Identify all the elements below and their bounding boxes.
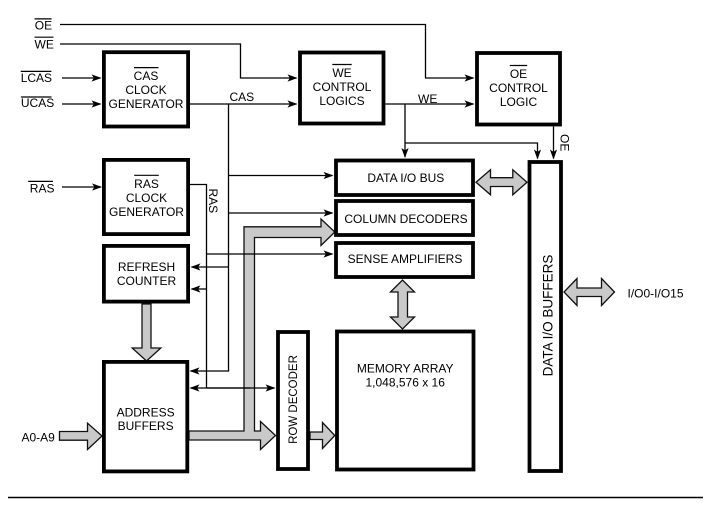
block data io bus <box>336 161 473 196</box>
wire CAS to column decoders <box>229 212 333 214</box>
bus address gray from address buffers to row decoder and column decoders <box>189 219 335 450</box>
svg-text:COUNTER: COUNTER <box>117 274 177 288</box>
svg-text:GENERATOR: GENERATOR <box>109 97 184 111</box>
wire RAS out vertical <box>190 185 207 389</box>
wire CAS to address buffers <box>191 370 229 373</box>
bus sense amplifiers to memory array double gray arrow <box>391 280 415 329</box>
svg-text:CAS: CAS <box>230 90 255 104</box>
svg-text:BUFFERS: BUFFERS <box>118 419 174 433</box>
block column decoders <box>336 201 473 235</box>
wire CAS vertical <box>228 104 230 372</box>
bus data io buffers to IO pins double gray arrow <box>564 279 615 306</box>
block refresh counter <box>104 246 188 302</box>
svg-text:LOGICS: LOGICS <box>319 94 364 108</box>
svg-text:LCAS: LCAS <box>21 71 52 85</box>
svg-text:CLOCK: CLOCK <box>125 83 166 97</box>
svg-text:I/O0-I/O15: I/O0-I/O15 <box>628 286 684 300</box>
wire RAS to refresh counter <box>192 288 207 290</box>
svg-text:DATA I/O BUFFERS: DATA I/O BUFFERS <box>540 255 555 377</box>
wire CAS to refresh counter <box>192 266 229 268</box>
wire OE control logic out to data io buffers <box>553 127 555 159</box>
wire OE from label to OE control logic <box>60 25 474 79</box>
block OE control logic <box>477 53 560 125</box>
svg-text:SENSE AMPLIFIERS: SENSE AMPLIFIERS <box>348 252 463 266</box>
svg-text:WE: WE <box>35 38 54 52</box>
svg-text:LOGIC: LOGIC <box>500 95 538 109</box>
block sense amplifiers <box>336 243 473 277</box>
wire row address line right arrow <box>207 387 275 389</box>
wire CAS net to WE control logics <box>190 103 297 105</box>
bus data io bus to data io buffers double gray arrow <box>476 170 527 195</box>
wire RAS arrow <box>62 186 101 188</box>
svg-text:RAS: RAS <box>30 181 55 195</box>
svg-text:CLOCK: CLOCK <box>126 191 167 205</box>
svg-text:RAS: RAS <box>134 177 159 191</box>
node WE input label <box>35 37 54 51</box>
wire CAS to data io bus <box>229 175 333 177</box>
svg-text:WE: WE <box>332 66 351 80</box>
svg-text:WE: WE <box>418 92 437 106</box>
block data io buffers <box>530 162 562 471</box>
block CAS clock generator <box>104 52 188 126</box>
svg-text:OE: OE <box>35 19 52 33</box>
wire row address line left arrow <box>191 387 251 389</box>
node UCAS input label <box>21 96 54 110</box>
wire UCAS arrow <box>62 103 101 105</box>
svg-text:1,048,576 x 16: 1,048,576 x 16 <box>365 375 445 389</box>
svg-text:ADDRESS: ADDRESS <box>117 405 175 419</box>
svg-text:A0-A9: A0-A9 <box>22 431 56 445</box>
svg-text:REFRESH: REFRESH <box>118 260 175 274</box>
svg-text:ROW DECODER: ROW DECODER <box>288 355 300 444</box>
node LCAS input label <box>21 71 52 85</box>
wire WE from label to WE control logics <box>60 44 297 78</box>
node RAS input label <box>28 181 54 195</box>
bus row decoder to memory array gray arrow <box>310 423 335 449</box>
wire WE out to OE control logic <box>386 103 474 105</box>
svg-text:MEMORY ARRAY: MEMORY ARRAY <box>357 361 454 375</box>
bus A0-A9 gray arrow <box>60 423 103 449</box>
svg-text:UCAS: UCAS <box>21 96 54 110</box>
svg-text:OE: OE <box>510 67 527 81</box>
svg-text:RAS: RAS <box>206 189 220 214</box>
footer rule <box>8 497 703 499</box>
block memory array <box>337 332 474 470</box>
svg-text:CONTROL: CONTROL <box>489 81 548 95</box>
bus refresh counter to address buffers gray arrow <box>132 304 161 361</box>
wire WE branch down to data io bus <box>404 104 406 157</box>
svg-text:DATA I/O BUS: DATA I/O BUS <box>367 171 444 185</box>
svg-text:COLUMN DECODERS: COLUMN DECODERS <box>344 212 467 226</box>
svg-text:GENERATOR: GENERATOR <box>109 205 184 219</box>
node OE input label <box>35 19 53 33</box>
block row decoder <box>278 332 308 469</box>
svg-text:CONTROL: CONTROL <box>313 80 372 94</box>
wire RAS to sense amplifiers <box>207 253 333 255</box>
block WE control logics <box>300 53 384 124</box>
wire WE branch to data io buffers top <box>405 143 538 159</box>
wire LCAS arrow <box>62 77 101 79</box>
block RAS clock generator <box>104 160 188 234</box>
svg-text:CAS: CAS <box>134 69 159 83</box>
block address buffers <box>104 362 187 472</box>
svg-text:OE: OE <box>558 134 572 151</box>
